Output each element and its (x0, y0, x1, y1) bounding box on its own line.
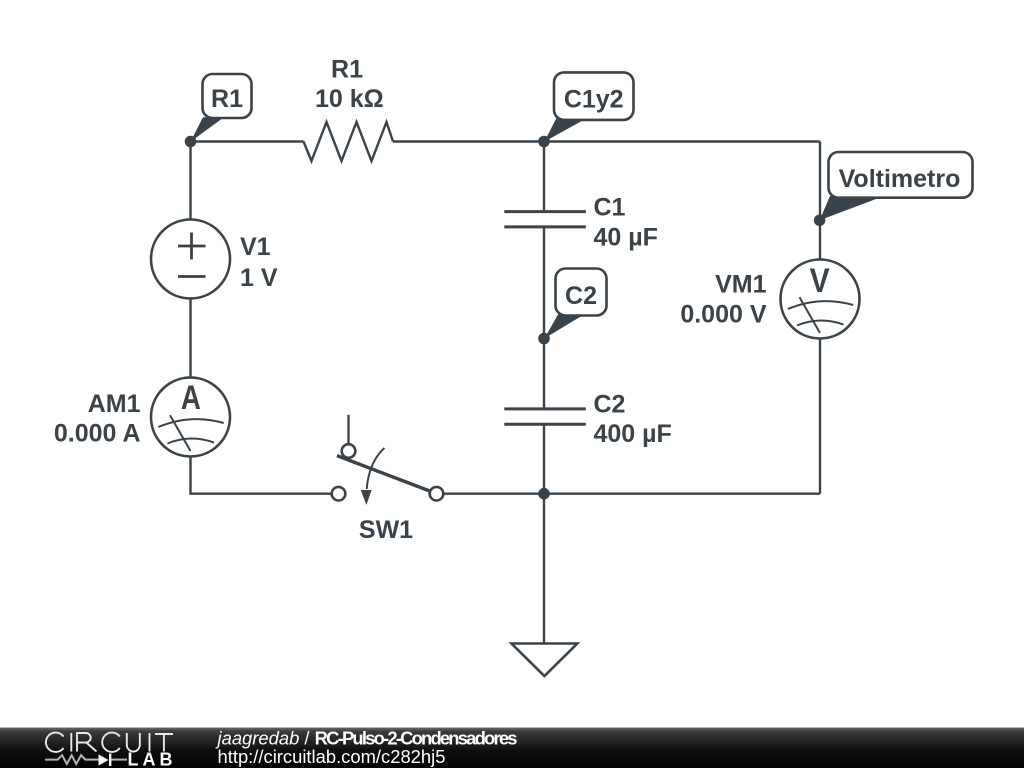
svg-text:10 kΩ: 10 kΩ (315, 85, 384, 113)
svg-text:A: A (181, 379, 201, 417)
node Voltimetro (dot) (814, 215, 826, 227)
junction node C2 (dot) (538, 333, 550, 345)
svg-text:V1: V1 (240, 233, 271, 261)
svg-text:http://circuitlab.com/c282hj5: http://circuitlab.com/c282hj5 (218, 746, 446, 767)
svg-text:40 µF: 40 µF (594, 224, 658, 252)
wire mid vertical (node C1y2 to C1) (543, 142, 545, 212)
voltage source V1 (151, 220, 230, 299)
CircuitLab logo CIRCUIT (46, 733, 173, 752)
svg-text:0.000 A: 0.000 A (54, 420, 141, 448)
wire left vertical upper (node R1 to V1) (189, 142, 191, 220)
wire C2 to bottom junction (543, 425, 545, 494)
junction node C1y2 (dot) (538, 136, 550, 148)
svg-text:0.000 V: 0.000 V (680, 301, 767, 329)
node callout C2 (544, 269, 606, 339)
svg-text:VM1: VM1 (715, 271, 767, 299)
voltmeter VM1 (781, 260, 860, 339)
wire top-left segment (node R1 to resistor) (191, 140, 304, 142)
wire ground stem (543, 494, 545, 644)
svg-text:Voltimetro: Voltimetro (839, 165, 961, 193)
node callout Voltimetro (820, 152, 973, 220)
resistor R1 (304, 122, 394, 161)
svg-text:V: V (810, 262, 830, 300)
svg-text:C1: C1 (594, 194, 626, 222)
svg-text:C1y2: C1y2 (564, 86, 624, 114)
wire right vertical top (corner to VM1) (819, 142, 821, 260)
wire AM1 down then right to switch (191, 457, 332, 494)
wire V1 to AM1 (189, 299, 191, 378)
wire top-right segment (resistor to right corner) (393, 140, 820, 142)
junction node R1 (dot) (185, 136, 197, 148)
CircuitLab logo squiggle and diode (45, 754, 127, 767)
switch SW1 (332, 415, 444, 505)
node callout R1 (191, 74, 252, 142)
svg-text:C2: C2 (594, 391, 626, 419)
capacitor C2 (504, 409, 586, 424)
svg-text:SW1: SW1 (359, 516, 413, 544)
svg-text:400 µF: 400 µF (594, 420, 672, 448)
svg-text:AM1: AM1 (88, 390, 141, 418)
wire bottom junction to right vertical (544, 493, 820, 495)
node callout C1y2 (544, 72, 633, 141)
svg-text:1 V: 1 V (240, 264, 278, 292)
wire node C2 to capacitor C2 (543, 339, 545, 409)
ammeter AM1 (151, 378, 230, 457)
capacitor C1 (504, 212, 586, 227)
ground symbol (512, 644, 578, 677)
wire C1 to node C2 (543, 228, 545, 339)
label R1 name and value (315, 56, 384, 114)
junction bottom node (dot) (538, 488, 550, 500)
wire switch to bottom junction (443, 493, 544, 495)
svg-text:C2: C2 (565, 282, 597, 310)
label C2 name and value (594, 391, 672, 449)
label C1 name and value (594, 194, 658, 252)
wire right vertical bottom (VM1 to bottom wire) (819, 339, 821, 494)
label V1 name and value (240, 233, 278, 292)
label VM1 name and value (680, 271, 767, 329)
svg-text:R1: R1 (211, 85, 243, 113)
label AM1 name and value (54, 390, 141, 448)
svg-text:LAB: LAB (128, 750, 177, 768)
svg-text:R1: R1 (331, 56, 363, 84)
